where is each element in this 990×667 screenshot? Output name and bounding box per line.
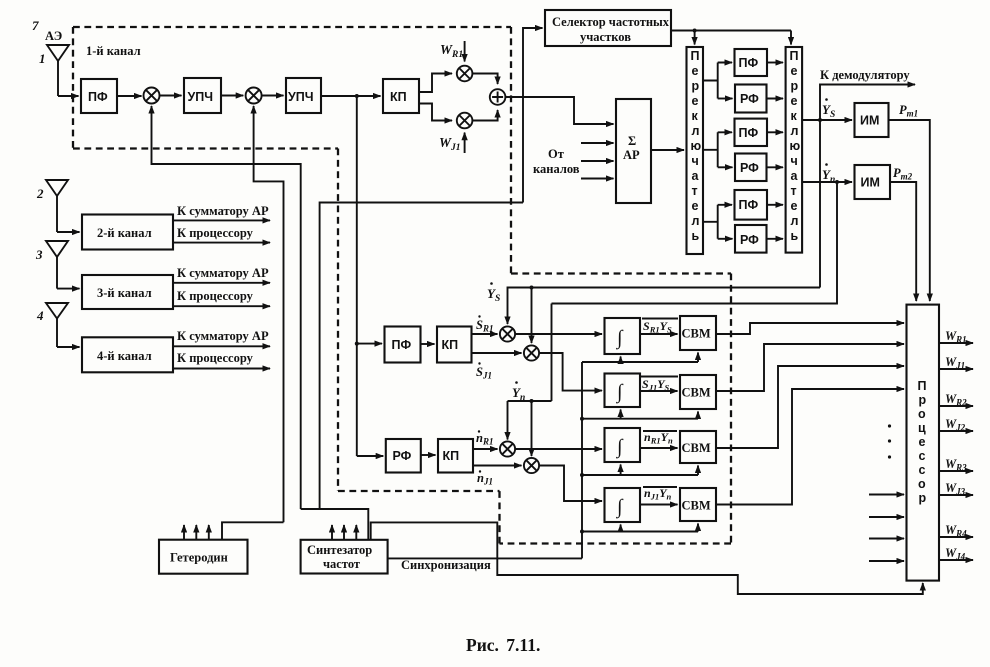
svg-text:к: к	[692, 109, 699, 123]
label nR1	[476, 430, 493, 446]
wire mixer nR1 to integrator 3	[515, 448, 602, 450]
svg-text:ь: ь	[692, 229, 700, 243]
svg-text:КП: КП	[390, 90, 407, 104]
filter PF row2	[735, 119, 768, 146]
label nJ1Yn with overline	[643, 486, 677, 502]
svg-text:ПФ: ПФ	[88, 90, 108, 104]
summator AR box	[616, 99, 651, 203]
wire SVM3 to processor	[716, 366, 904, 448]
svg-text:о: о	[918, 407, 926, 421]
channel 3 box	[82, 275, 173, 309]
svg-text:АЭ: АЭ	[45, 29, 62, 43]
wire antenna1 to PF	[58, 95, 79, 97]
svg-text:ИМ: ИМ	[860, 114, 879, 128]
svg-text:К процессору: К процессору	[177, 351, 254, 365]
svg-text:е: е	[791, 64, 798, 78]
label YS at switch output	[822, 98, 835, 120]
wire antenna2 to channel2	[57, 231, 80, 233]
svg-text:с: с	[919, 463, 926, 477]
svg-text:л: л	[791, 124, 799, 138]
svg-text:л: л	[692, 214, 700, 228]
svg-text:т: т	[791, 184, 797, 198]
label nJ1	[477, 470, 493, 486]
svg-text:СВМ: СВМ	[682, 499, 711, 513]
svg-text:ч: ч	[692, 154, 699, 168]
wire processor input stub 7	[869, 538, 904, 540]
wire KP2 to mixer SJ1	[472, 352, 522, 354]
label SJ1	[476, 362, 492, 380]
wire tap to PF2 with junction	[355, 342, 382, 346]
svg-text:ПФ: ПФ	[392, 338, 412, 352]
frequency synthesizer box	[301, 540, 388, 574]
svg-text:ПФ: ПФ	[739, 198, 759, 212]
svg-text:ч: ч	[791, 154, 798, 168]
svg-text:р: р	[919, 393, 927, 407]
wire SVM1 to processor	[716, 323, 904, 334]
mixer SR1xYS	[500, 326, 515, 341]
wire integrator3 to SVM3	[640, 447, 678, 449]
frequency section selector box	[545, 10, 671, 46]
wire switch1 to RF row2	[718, 166, 733, 168]
label from channels	[533, 147, 580, 176]
switch 2 (right) box	[786, 47, 803, 253]
sync bus row1	[582, 353, 698, 363]
filter RF row3	[735, 225, 767, 253]
label Yn dotted	[512, 381, 525, 403]
quadrature splitter KP (channel 1)	[383, 79, 419, 113]
svg-text:Σ: Σ	[628, 134, 636, 148]
bandpass filter PF (signal reference)	[385, 327, 421, 363]
wire switch1 to RF row1	[718, 98, 733, 100]
svg-text:Рис. 7.11.: Рис. 7.11.	[466, 635, 540, 655]
wire mixer nJ1 to integrator 4	[539, 466, 602, 502]
wire output WJ2	[939, 430, 973, 432]
label SJ1YS with overline	[641, 377, 678, 393]
wire WJ1 mixer to adder	[472, 110, 497, 121]
svg-text:УПЧ: УПЧ	[288, 90, 314, 104]
multiplier box SVM4	[680, 488, 716, 521]
svg-text:РФ: РФ	[393, 449, 412, 463]
wire integrator4 to SVM4	[640, 504, 678, 506]
wire to processor (ch3)	[173, 305, 270, 307]
node Yn junction dot	[835, 180, 839, 184]
wire SVM4 to processor	[716, 389, 904, 505]
label SR1	[476, 315, 493, 333]
svg-text:е: е	[692, 199, 699, 213]
svg-text:р: р	[791, 79, 799, 93]
wire mixer SJ1 to integrator 2	[539, 353, 602, 391]
svg-text:р: р	[919, 491, 927, 505]
svg-text:КП: КП	[443, 449, 460, 463]
measurer IM1 box	[855, 103, 889, 137]
wire IM2 output Pm2 to processor	[890, 182, 916, 301]
integrator 4	[605, 488, 641, 522]
wire output WR3	[939, 470, 973, 472]
svg-text:ИМ: ИМ	[861, 176, 880, 190]
wire WJ1 input arrow	[464, 133, 466, 153]
wire Yn line to n mixers	[508, 304, 552, 457]
wire mixer2 LO from heterodyne	[254, 106, 284, 522]
svg-text:РФ: РФ	[740, 161, 759, 175]
svg-text:К демодулятору: К демодулятору	[820, 68, 910, 82]
integrator 3	[605, 428, 641, 462]
mixer SJ1xYS	[524, 345, 539, 360]
svg-text:ю: ю	[790, 139, 801, 153]
svg-text:1: 1	[39, 51, 46, 66]
svg-text:Гетеродин: Гетеродин	[170, 551, 228, 565]
wire output WR2	[939, 405, 973, 407]
svg-text:3: 3	[35, 247, 43, 262]
multiplier box SVM3	[680, 431, 716, 463]
quadrature splitter KP (noise reference)	[438, 439, 473, 473]
svg-text:3-й канал: 3-й канал	[97, 286, 152, 300]
heterodyne output arrows	[184, 525, 209, 540]
mixer 1 (channel 1)	[144, 88, 160, 104]
wire mixer1 LO from synthesizer	[152, 106, 301, 509]
svg-text:а: а	[791, 169, 799, 183]
wire output WR4	[939, 536, 973, 538]
wire adder output to sum AR	[505, 97, 613, 124]
wire KP3 to mixer nJ1	[473, 465, 522, 467]
IF amplifier UPCH1	[184, 78, 221, 113]
wire summator AR to switch 1	[651, 149, 684, 151]
label WR1	[440, 42, 463, 60]
bandpass filter PF (channel 1)	[81, 79, 117, 113]
wire YS line to S mixers	[508, 286, 821, 344]
wire PF2 to KP2	[421, 343, 435, 345]
svg-text:1-й канал: 1-й канал	[86, 44, 141, 58]
antenna 3	[46, 241, 68, 289]
svg-text:ПФ: ПФ	[739, 56, 759, 70]
svg-text:ь: ь	[791, 229, 799, 243]
label SR1YS with overline	[642, 319, 678, 335]
wire switch1 to filter pair 3	[703, 205, 732, 239]
svg-text:СВМ: СВМ	[682, 327, 711, 341]
svg-text:с: с	[919, 449, 926, 463]
wire output WR1	[939, 342, 973, 344]
wire switch2 to IM2	[802, 181, 852, 183]
wire synchronization to processor	[371, 522, 923, 594]
svg-text:К сумматору АР: К сумматору АР	[177, 204, 269, 218]
wire antenna3 to channel3	[57, 288, 80, 290]
filter RF row1	[735, 85, 767, 113]
notch filter RF (noise reference)	[386, 439, 421, 473]
svg-text:П: П	[790, 49, 799, 63]
wire RF to KP3	[421, 454, 436, 456]
processor box	[907, 305, 940, 581]
switch 1 (left) box	[687, 47, 704, 254]
continuation dots	[888, 424, 891, 458]
wire synchronization to sync bus	[388, 557, 582, 559]
wire KP3 to mixer nR1	[473, 448, 498, 450]
wire processor input stub 6	[869, 516, 904, 518]
dashed boundary of 1st channel block	[73, 27, 511, 491]
filter PF row3	[735, 190, 768, 220]
wire WR1 mixer to adder	[472, 74, 497, 85]
sync bus row3	[580, 465, 698, 478]
wire mixer SR1 to integrator 1	[515, 333, 602, 335]
mixer nJ1xYn	[524, 458, 539, 473]
wire KP to weight mixer WR1	[419, 74, 452, 93]
wire WR1 input arrow	[464, 41, 466, 62]
wire integrator2 to SVM2	[640, 390, 678, 392]
svg-text:УПЧ: УПЧ	[188, 90, 214, 104]
adder (channel 1 output)	[490, 89, 506, 105]
svg-text:частот: частот	[323, 557, 360, 571]
wire mixer1 to UPCH1	[160, 95, 182, 97]
svg-text:участков: участков	[580, 30, 631, 44]
svg-text:К процессору: К процессору	[177, 226, 254, 240]
wire switch2 to IM1	[802, 119, 852, 121]
node YS junction dot	[818, 118, 822, 122]
wire integrator1 to SVM1	[640, 333, 678, 335]
svg-text:е: е	[692, 94, 699, 108]
sync bus row2	[580, 410, 698, 421]
svg-text:П: П	[691, 49, 700, 63]
multiplier box SVM2	[680, 375, 716, 409]
wire synthesizer to selector branch	[320, 203, 523, 510]
IF amplifier UPCH2	[286, 78, 321, 113]
mixer nR1xYn	[500, 441, 515, 456]
svg-text:ц: ц	[918, 421, 926, 435]
wire to summator AR (ch3)	[173, 282, 270, 284]
wire PF to mixer1	[117, 95, 142, 97]
svg-text:л: л	[791, 214, 799, 228]
wire to demodulator	[820, 85, 915, 288]
svg-text:е: е	[791, 199, 798, 213]
antenna 4	[46, 303, 68, 347]
svg-text:2: 2	[36, 186, 44, 201]
svg-text:2-й канал: 2-й канал	[97, 226, 152, 240]
synthesizer output arrows	[332, 525, 356, 540]
svg-text:РФ: РФ	[740, 233, 759, 247]
svg-text:СВМ: СВМ	[682, 386, 711, 400]
wire IM1 output Pm1 to processor	[889, 120, 930, 301]
wire synthesizer branch up to selector	[523, 28, 543, 203]
wire KP2 to mixer SR1	[472, 333, 498, 335]
mixer 2 (channel 1)	[246, 88, 262, 104]
wire SVM2 to processor	[716, 344, 904, 391]
svg-text:От: От	[548, 147, 564, 161]
svg-text:к: к	[791, 109, 798, 123]
svg-text:р: р	[692, 79, 700, 93]
wire switch1 to RF row3	[718, 238, 733, 240]
svg-text:Селектор частотных: Селектор частотных	[552, 15, 670, 29]
wires filters to switch2	[767, 63, 784, 239]
wire UPCH2 to KP1 with tap junction	[321, 94, 381, 98]
wire switch1 to filter pair 2	[703, 132, 732, 167]
heterodyne oscillator box	[159, 540, 248, 574]
wire processor input stub 5	[869, 494, 904, 496]
svg-text:К процессору: К процессору	[177, 289, 254, 303]
wire UPCH2 tap down to PF/RF	[356, 96, 358, 456]
svg-text:е: е	[919, 435, 926, 449]
integrator 2	[605, 374, 641, 408]
svg-text:П: П	[918, 379, 927, 393]
sync bus row4	[580, 524, 698, 534]
svg-text:е: е	[692, 64, 699, 78]
filter PF row1	[735, 49, 768, 76]
svg-text:СВМ: СВМ	[682, 441, 711, 455]
wire mixer2 to UPCH2	[262, 95, 284, 97]
svg-text:Синхронизация: Синхронизация	[401, 558, 491, 572]
svg-text:о: о	[918, 477, 926, 491]
integrator 1	[605, 318, 641, 354]
wire output WJ4	[939, 559, 973, 561]
svg-text:К сумматору АР: К сумматору АР	[177, 329, 269, 343]
quadrature splitter KP (signal reference)	[437, 327, 472, 363]
svg-text:л: л	[692, 124, 700, 138]
svg-text:ю: ю	[691, 139, 702, 153]
antenna 2	[46, 180, 68, 232]
svg-text:4-й канал: 4-й канал	[97, 349, 152, 363]
filter RF row2	[735, 154, 767, 182]
wire antenna4 to channel4	[57, 346, 80, 348]
wire output WJ3	[939, 494, 973, 496]
measurer IM2 box	[855, 165, 891, 199]
weight mixer WJ1	[457, 113, 473, 129]
svg-text:а: а	[692, 169, 700, 183]
weight mixer WR1	[457, 66, 473, 82]
wire switch1 to filter pair 1	[703, 63, 732, 99]
svg-text:7: 7	[32, 18, 39, 33]
wire heterodyne to channel1 mixer2	[222, 522, 284, 539]
channel 4 box	[82, 337, 173, 372]
svg-text:ПФ: ПФ	[739, 126, 759, 140]
wire synthesizer common node	[301, 509, 369, 540]
wire UPCH1 to mixer2	[221, 95, 243, 97]
wire tap to RF	[357, 455, 384, 457]
label YS dotted	[487, 282, 500, 304]
label Yn at switch output	[822, 163, 835, 185]
svg-text:РФ: РФ	[740, 92, 759, 106]
wire to summator AR (ch2)	[173, 219, 270, 221]
svg-text:КП: КП	[442, 338, 459, 352]
wires from channels to summator	[581, 143, 614, 179]
svg-text:Синтезатор: Синтезатор	[307, 543, 372, 557]
svg-text:4: 4	[36, 308, 44, 323]
channel 2 box	[82, 215, 173, 250]
antenna 1	[47, 45, 69, 96]
label WJ1	[439, 135, 461, 153]
svg-text:АР: АР	[623, 148, 640, 162]
dashed boundary of correlator block	[500, 274, 732, 544]
wire KP to weight mixer WJ1	[419, 104, 452, 121]
wire processor input stub 8	[869, 560, 904, 562]
wire to summator AR (ch4)	[173, 345, 270, 347]
svg-text:т: т	[692, 184, 698, 198]
sync bus riser	[581, 362, 583, 558]
wire Yn branch down to correlator	[552, 182, 838, 304]
label nR1Yn with overline	[643, 430, 677, 446]
svg-text:е: е	[791, 94, 798, 108]
multiplier box SVM1	[680, 316, 716, 350]
svg-text:каналов: каналов	[533, 162, 580, 176]
wire selector to switches	[671, 29, 791, 45]
wire output WJ1	[939, 368, 973, 370]
svg-text:К сумматору АР: К сумматору АР	[177, 266, 269, 280]
wire to processor (ch4)	[173, 368, 270, 370]
wire to processor (ch2)	[173, 242, 270, 244]
